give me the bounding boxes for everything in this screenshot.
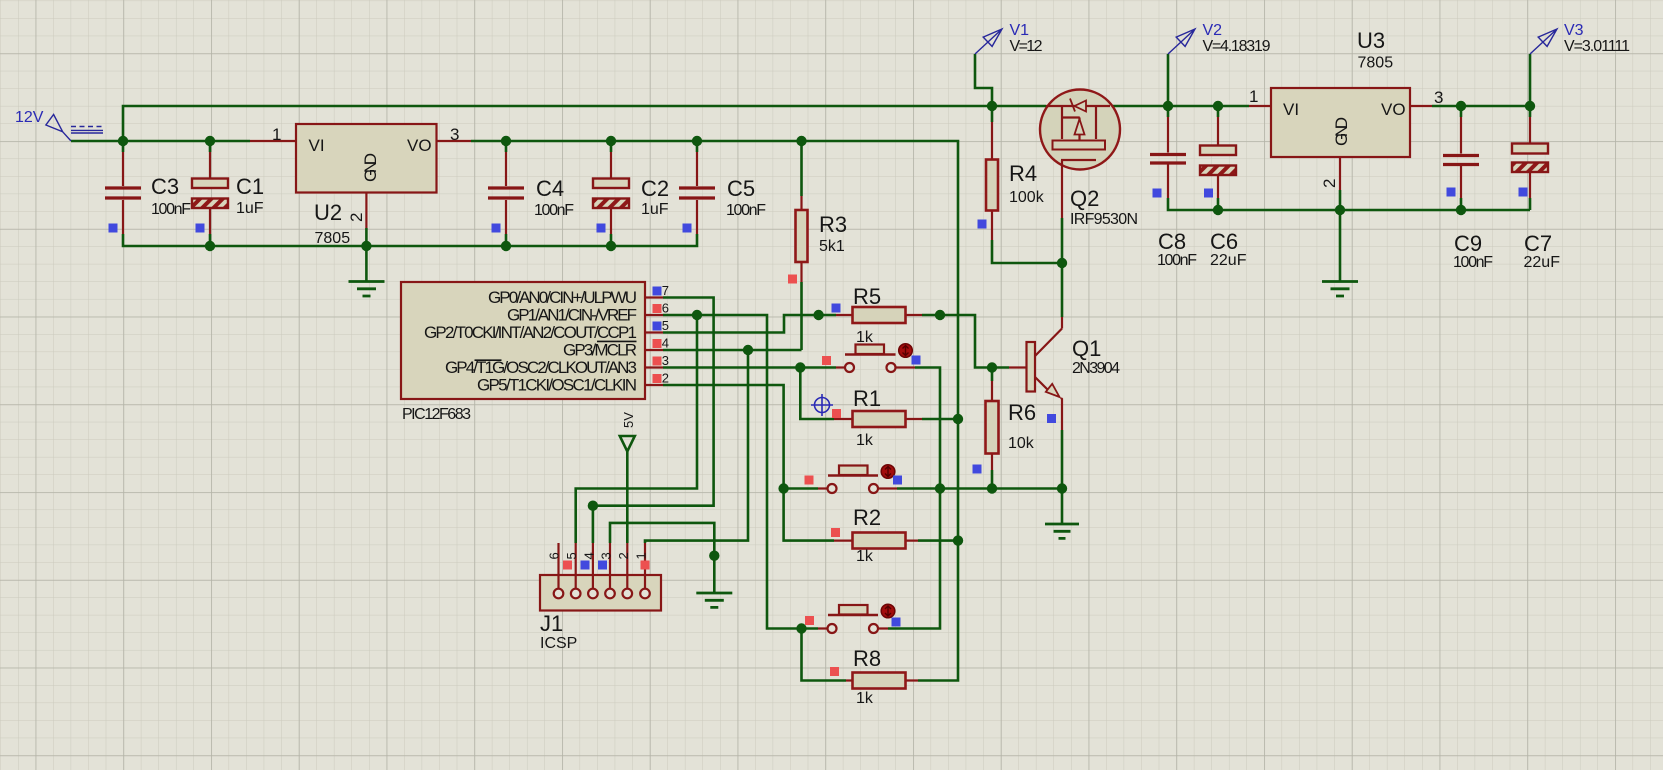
svg-text:V3: V3	[1564, 22, 1584, 39]
pushbutton 1 on GP4 row	[822, 344, 921, 372]
svg-text:1k: 1k	[856, 690, 874, 707]
voltage probe V1	[975, 22, 1043, 55]
svg-text:100nF: 100nF	[1453, 254, 1493, 271]
wire b1 right contact down to b3 right	[888, 368, 940, 629]
svg-text:100k: 100k	[1009, 189, 1045, 206]
microcontroller U? PIC12F683	[401, 282, 669, 423]
svg-text:V1: V1	[1010, 22, 1030, 39]
wire U2 ground stub	[365, 228, 368, 281]
svg-text:22uF: 22uF	[1210, 252, 1247, 269]
svg-text:2: 2	[662, 371, 669, 386]
svg-text:7805: 7805	[1358, 55, 1394, 72]
svg-text:R6: R6	[1008, 400, 1036, 425]
resistor R6 10k	[973, 381, 1057, 474]
svg-text:C9: C9	[1454, 231, 1482, 256]
svg-text:1: 1	[272, 125, 281, 144]
wire U3 output row to C9 C7 V3	[1432, 106, 1530, 117]
wire net 12V input row	[71, 106, 1046, 152]
transistor Q1 2N3904	[1009, 317, 1120, 430]
wire GP5 row to b2 and R2	[663, 385, 834, 541]
svg-text:2: 2	[1320, 179, 1339, 188]
wire U3 ground stub	[1339, 190, 1342, 281]
svg-text:1: 1	[634, 552, 649, 559]
svg-text:2N3904: 2N3904	[1072, 360, 1120, 377]
wire GP4 row to b1 and R1	[663, 368, 836, 420]
wire V1 probe riser	[975, 54, 992, 106]
svg-text:6: 6	[662, 301, 669, 316]
svg-text:ICSP: ICSP	[540, 635, 577, 652]
capacitor C4 100nF	[488, 152, 574, 234]
svg-text:VI: VI	[309, 136, 325, 155]
resistor R3 5k1	[788, 196, 847, 284]
svg-text:PIC12F683: PIC12F683	[402, 406, 471, 423]
svg-text:IRF9530N: IRF9530N	[1070, 211, 1138, 228]
svg-text:C7: C7	[1524, 231, 1552, 256]
svg-text:V=3.01111: V=3.01111	[1564, 38, 1630, 55]
pushbutton 2 on GP5 row	[805, 465, 903, 493]
svg-text:2: 2	[347, 213, 366, 222]
svg-text:5: 5	[662, 318, 669, 333]
resistor R2 1k	[831, 505, 918, 565]
svg-text:C5: C5	[727, 176, 755, 201]
svg-text:GND: GND	[1332, 117, 1351, 146]
svg-text:GP3/MCLR: GP3/MCLR	[563, 341, 637, 360]
pushbutton 3 on GP1 row	[805, 604, 901, 633]
svg-text:100nF: 100nF	[151, 201, 191, 218]
svg-text:1k: 1k	[856, 432, 874, 449]
svg-text:100nF: 100nF	[534, 202, 574, 219]
wire GP3/MCLR row to R3 and ICSP pin1	[645, 350, 802, 543]
12V input terminal	[15, 109, 103, 141]
svg-text:2: 2	[616, 552, 631, 559]
svg-text:C6: C6	[1210, 229, 1238, 254]
svg-text:12V: 12V	[15, 109, 44, 126]
5V power terminal	[620, 412, 636, 452]
svg-text:1uF: 1uF	[236, 200, 264, 217]
svg-text:C4: C4	[536, 176, 564, 201]
capacitor C7 22uF electrolytic	[1512, 117, 1560, 271]
svg-text:10k: 10k	[1008, 435, 1035, 452]
wire 5V output row from U2 VO with risers to C4 C2 C5 and R3, down right side to R8	[471, 141, 958, 681]
svg-text:C3: C3	[151, 174, 179, 199]
wire bottom ground rail left	[123, 234, 697, 246]
wire top rail right of Q2	[1110, 106, 1249, 117]
svg-text:1uF: 1uF	[641, 201, 669, 218]
voltage probe V3	[1530, 22, 1630, 55]
ground symbol under U3	[1322, 282, 1358, 297]
transistor Q2 IRF9530N	[1040, 90, 1138, 229]
wire V3 probe riser	[1529, 54, 1532, 117]
svg-text:R5: R5	[853, 284, 881, 309]
svg-text:GP0/AN0/CIN+/ULPWU: GP0/AN0/CIN+/ULPWU	[488, 288, 637, 307]
svg-text:R2: R2	[853, 505, 881, 530]
svg-text:100nF: 100nF	[1157, 252, 1197, 269]
svg-text:V=4.18319: V=4.18319	[1203, 38, 1271, 55]
resistor R8 1k	[830, 646, 918, 707]
svg-text:GP2/T0CKI/INT/AN2/COUT/CCP1: GP2/T0CKI/INT/AN2/COUT/CCP1	[424, 323, 637, 342]
capacitor C9 100nF	[1443, 117, 1493, 271]
svg-text:22uF: 22uF	[1524, 254, 1561, 271]
svg-text:1k: 1k	[856, 548, 874, 565]
capacitor C2 1uF electrolytic	[593, 152, 669, 234]
svg-text:C1: C1	[236, 174, 264, 199]
regulator U3 7805	[1249, 28, 1443, 190]
svg-text:5: 5	[564, 552, 579, 559]
wire emitter ground stub	[1061, 489, 1064, 524]
svg-text:5k1: 5k1	[819, 238, 845, 255]
svg-text:3: 3	[599, 552, 614, 559]
svg-text:Q1: Q1	[1072, 336, 1101, 361]
wire 5V terminal to ICSP pin2	[626, 451, 629, 543]
wire button row b2 ground rail	[784, 487, 1062, 490]
svg-text:4: 4	[662, 336, 669, 351]
svg-text:1: 1	[1249, 87, 1258, 106]
resistor R1 1k	[832, 386, 922, 449]
svg-text:C2: C2	[641, 176, 669, 201]
svg-text:VO: VO	[1381, 100, 1406, 119]
wire Q2 gate drop	[1061, 218, 1064, 263]
wire Q1 emitter drop to ground rail	[1061, 430, 1064, 489]
svg-text:3: 3	[1434, 88, 1443, 107]
svg-text:GP1/AN1/CIN-/VREF: GP1/AN1/CIN-/VREF	[507, 306, 637, 325]
wire GP0 row to ICSP pin4	[593, 298, 714, 544]
regulator U2 7805	[250, 124, 471, 247]
svg-text:5V: 5V	[621, 412, 636, 428]
capacitor C1 1uF electrolytic	[192, 152, 264, 234]
svg-text:Q2: Q2	[1070, 186, 1099, 211]
ground symbol under U2	[349, 282, 385, 297]
svg-text:GP5/T1CKI/OSC1/CLKIN: GP5/T1CKI/OSC1/CLKIN	[477, 376, 637, 395]
capacitor C3 100nF	[105, 152, 191, 234]
origin marker crosshair	[811, 394, 833, 416]
resistor R5 1k	[832, 284, 923, 346]
wire R6 stubs	[991, 368, 994, 489]
capacitor C5 100nF	[679, 152, 766, 234]
svg-text:R3: R3	[819, 212, 847, 237]
voltage probe V2	[1168, 22, 1271, 55]
svg-text:U2: U2	[314, 200, 342, 225]
svg-text:100nF: 100nF	[726, 202, 766, 219]
wire V2 probe riser	[1167, 54, 1170, 106]
capacitor C6 22uF electrolytic	[1200, 117, 1247, 269]
svg-text:GP4/T1G/OSC2/CLKOUT/AN3: GP4/T1G/OSC2/CLKOUT/AN3	[445, 358, 637, 377]
svg-text:R8: R8	[853, 646, 881, 671]
wire R4 branch and Q2 gate junction	[992, 106, 1062, 263]
svg-text:VI: VI	[1283, 100, 1299, 119]
svg-text:J1: J1	[540, 611, 563, 636]
svg-text:7: 7	[662, 283, 669, 298]
wire R3 top and bottom to GP3 row	[800, 141, 803, 350]
svg-text:V=12: V=12	[1010, 38, 1043, 55]
ground symbol at ICSP pin3	[696, 593, 732, 607]
svg-text:4: 4	[581, 552, 596, 559]
wire GP1 row to b3 R8 and ICSP pin5	[576, 315, 846, 681]
wire GP2 row jog to R5	[663, 315, 836, 333]
wire R5 right to Q1 base	[922, 315, 1009, 368]
wire middle ground rail right	[1168, 198, 1530, 210]
svg-text:U3: U3	[1357, 28, 1385, 53]
svg-text:C8: C8	[1158, 229, 1186, 254]
svg-text:R4: R4	[1009, 161, 1037, 186]
capacitor C8 100nF	[1150, 117, 1197, 269]
svg-text:3: 3	[450, 125, 459, 144]
svg-text:3: 3	[662, 353, 669, 368]
svg-text:7805: 7805	[315, 230, 351, 247]
wire R1 right	[922, 418, 958, 421]
ground symbol at Q1 emitter	[1045, 524, 1079, 538]
svg-text:GND: GND	[361, 153, 380, 182]
wire ICSP pin3 to ground	[610, 523, 714, 593]
resistor R4 100k	[978, 122, 1045, 240]
svg-text:VO: VO	[407, 136, 432, 155]
svg-text:V2: V2	[1203, 22, 1223, 39]
wire R2 right	[918, 539, 958, 542]
wire Q1 collector riser	[1061, 263, 1064, 317]
svg-text:6: 6	[547, 552, 562, 559]
svg-text:R1: R1	[853, 386, 881, 411]
connector J1 ICSP	[540, 543, 661, 652]
